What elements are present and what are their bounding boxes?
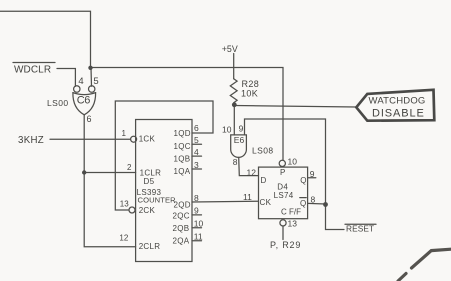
svg-text:D5: D5 — [144, 177, 155, 186]
svg-text:10: 10 — [194, 219, 204, 229]
svg-text:1: 1 — [122, 129, 127, 138]
svg-text:1QA: 1QA — [174, 167, 191, 176]
svg-text:12: 12 — [247, 168, 257, 178]
svg-text:Q: Q — [300, 176, 306, 185]
svg-text:2QB: 2QB — [173, 224, 190, 233]
svg-text:Q: Q — [300, 199, 306, 208]
svg-text:11: 11 — [243, 192, 252, 202]
svg-text:6: 6 — [87, 114, 92, 124]
svg-text:2QA: 2QA — [173, 237, 190, 246]
svg-text:8: 8 — [311, 195, 316, 205]
svg-text:C F/F: C F/F — [281, 208, 301, 217]
svg-text:D: D — [261, 176, 267, 185]
svg-text:4: 4 — [78, 76, 83, 87]
svg-text:LS08: LS08 — [252, 146, 273, 156]
svg-text:10: 10 — [288, 157, 298, 167]
svg-text:LS74: LS74 — [274, 191, 294, 200]
svg-text:2CLR: 2CLR — [139, 242, 161, 251]
svg-text:2QC: 2QC — [173, 212, 190, 221]
svg-text:9: 9 — [310, 169, 315, 179]
svg-text:5: 5 — [93, 76, 98, 87]
svg-text:LS00: LS00 — [47, 98, 68, 108]
svg-text:9: 9 — [194, 206, 199, 216]
svg-text:12: 12 — [119, 234, 128, 243]
svg-text:R28: R28 — [242, 79, 260, 89]
svg-text:2QD: 2QD — [174, 201, 191, 210]
svg-text:P, R29: P, R29 — [270, 240, 301, 250]
svg-text:6: 6 — [194, 123, 199, 133]
svg-text:1QD: 1QD — [174, 129, 191, 138]
svg-text:1CK: 1CK — [139, 135, 156, 144]
svg-text:DISABLE: DISABLE — [372, 107, 425, 119]
svg-text:1QB: 1QB — [174, 155, 191, 164]
svg-text:5: 5 — [194, 135, 199, 145]
svg-text:WDCLR: WDCLR — [14, 65, 51, 76]
svg-text:4: 4 — [194, 147, 199, 157]
svg-text:2CK: 2CK — [139, 206, 156, 215]
svg-text:11: 11 — [194, 232, 203, 242]
svg-text:13: 13 — [120, 199, 129, 208]
svg-text:1QC: 1QC — [174, 142, 191, 151]
svg-text:WATCHDOG: WATCHDOG — [369, 96, 426, 107]
svg-text:COUNTER: COUNTER — [138, 195, 177, 204]
svg-text:10K: 10K — [241, 89, 258, 99]
svg-text:RESET: RESET — [346, 223, 374, 233]
svg-text:8: 8 — [194, 193, 199, 203]
svg-text:2: 2 — [127, 163, 132, 172]
svg-text:C6: C6 — [77, 95, 90, 107]
svg-text:8: 8 — [233, 157, 238, 167]
svg-text:13: 13 — [288, 219, 298, 229]
svg-text:P: P — [280, 168, 285, 177]
svg-text:CK: CK — [260, 198, 272, 207]
svg-text:3: 3 — [194, 160, 199, 170]
svg-text:+5V: +5V — [222, 44, 238, 54]
svg-text:9: 9 — [239, 124, 244, 134]
svg-text:10: 10 — [222, 125, 232, 135]
svg-text:E6: E6 — [234, 135, 245, 145]
svg-text:3KHZ: 3KHZ — [18, 135, 44, 146]
